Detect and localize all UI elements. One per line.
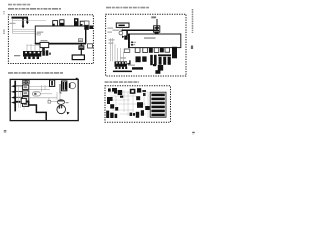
wire W11 gray links above comb xyxy=(27,44,40,46)
notch of T1 xyxy=(75,20,77,22)
wire W16 main thick bus to IC xyxy=(122,26,158,30)
capacitor C10 at +B xyxy=(154,26,160,32)
wire W21 row wires xyxy=(29,85,57,101)
switch SW1 box xyxy=(50,80,55,86)
terminal block X4 xyxy=(22,102,28,106)
IC U14 xyxy=(137,102,143,108)
resistor R12 xyxy=(154,48,159,53)
thick bottom edge of U1 xyxy=(35,43,86,45)
resistor R1 small mark xyxy=(49,53,51,55)
diode D11 xyxy=(160,48,164,53)
arrow A2 xyxy=(22,26,25,29)
motor M1 circle xyxy=(69,82,76,88)
wire W5 thin horizontal xyxy=(13,19,46,21)
motor M2 circle xyxy=(57,105,66,114)
transformer T2 bars xyxy=(150,54,171,65)
transformer T1 on top of U1 xyxy=(74,18,79,26)
regulator box VR1 xyxy=(84,21,89,25)
page number bottom-left xyxy=(4,130,7,133)
IC top component CT1 xyxy=(155,32,159,34)
mark in CN4 xyxy=(79,40,81,41)
wire grid of pcb xyxy=(108,88,148,118)
IC U2 main block xyxy=(129,34,181,48)
terminal pin marks xyxy=(24,86,27,105)
thick right edge of U1 xyxy=(85,26,87,44)
capacitor C30 xyxy=(120,96,123,98)
capacitor C3 beside CN1 xyxy=(46,50,49,55)
lamp LA1 ellipse xyxy=(57,100,64,105)
arrow A5 xyxy=(11,96,16,99)
sensor box S1 xyxy=(116,23,129,27)
pin mark P2 xyxy=(131,44,133,46)
wire W17 drop to optocoupler xyxy=(126,30,128,36)
capacitor C4 stack xyxy=(79,46,84,50)
connector CN10 comb bottom-left xyxy=(106,111,117,118)
trap filter box F1 xyxy=(40,42,49,47)
wire W14 +B stem xyxy=(156,19,158,26)
connector CN2 small box xyxy=(88,44,93,48)
mark of C1 xyxy=(81,24,83,26)
connector CN3 comb block xyxy=(115,61,128,69)
diode D10 xyxy=(149,48,153,53)
resistor R13 xyxy=(165,48,170,52)
capacitor C20 with bars xyxy=(60,81,67,93)
capacitor C12 black square xyxy=(142,56,146,61)
wire W25 link to lamp xyxy=(51,101,58,103)
label text left of CN1 xyxy=(14,55,20,56)
caption line 1 (title of top-left schematic) xyxy=(8,4,31,6)
resistor R21 xyxy=(136,96,140,100)
bus line BL1 xyxy=(14,81,16,112)
IC U13 L-shaped xyxy=(107,97,113,104)
junction dot J1 xyxy=(76,78,78,80)
pad under HS1 xyxy=(155,70,160,74)
arrow A3 xyxy=(11,85,16,88)
thick left edge of U2 xyxy=(128,34,130,48)
wire W1 thick top feed xyxy=(12,17,29,19)
type label inside U2 xyxy=(144,37,156,38)
left margin vertical text xyxy=(3,11,5,34)
contact mark of RL1 xyxy=(53,24,55,26)
label above CN3 xyxy=(120,57,126,58)
wire W19 hook at CN3 xyxy=(127,60,130,63)
connector label box CN4 inside U1 xyxy=(78,39,82,42)
optocoupler OC1 second half xyxy=(129,35,133,40)
caption line 5 (title of bottom-right schematic) xyxy=(105,81,139,83)
IC U12 white center xyxy=(130,89,136,94)
fuse FU1 pair at top xyxy=(23,80,30,83)
label above F1 xyxy=(41,40,48,41)
arrow A8 into optocoupler xyxy=(122,35,124,38)
transistor Q10 xyxy=(118,90,123,95)
resistor row RN1 xyxy=(130,113,135,116)
label under S1 xyxy=(113,30,120,31)
wire W12 from U1 bottom to C4 xyxy=(80,44,82,46)
wire W13 from C4 down xyxy=(80,49,82,55)
terminal block X2 xyxy=(22,91,28,96)
wire W3 vertical drop with arrow xyxy=(22,19,24,27)
arrow A1 xyxy=(26,22,29,25)
pin labels left inside U2 row2 xyxy=(131,44,136,45)
wire W20 stubs to connector xyxy=(15,86,22,102)
element bar inside S1 xyxy=(119,25,125,27)
capacitor C31 xyxy=(115,107,118,111)
connector CN1 comb block xyxy=(23,51,41,59)
switch SW2 on wire xyxy=(21,98,26,103)
capacitor C32 xyxy=(136,112,139,118)
caption line 2 (subtitle of top-left schematic) xyxy=(8,8,61,10)
dashed border of top-left schematic xyxy=(8,15,93,64)
pin labels left inside U2 xyxy=(131,42,136,43)
label text inside U1 xyxy=(37,32,44,33)
wire W2 vertical drop with arrow xyxy=(26,18,28,22)
node label text xyxy=(10,23,16,24)
transistor Q11 xyxy=(110,104,114,108)
power module PS2 blob xyxy=(89,26,93,30)
thermistor TH1 circle xyxy=(119,31,123,35)
wire W9 tail of D1 xyxy=(41,50,44,52)
pin mark P1 xyxy=(131,42,133,44)
wire W4 thin vertical xyxy=(12,19,14,34)
caption line 3 (title of top-right schematic) xyxy=(106,7,149,9)
dashed border of top-right schematic xyxy=(106,14,186,76)
caption line 4 (title of bottom-left schematic) xyxy=(8,72,63,74)
wire W23 thick L-path xyxy=(15,102,46,120)
wire W7 thin horizontal into main unit xyxy=(13,30,68,32)
wire W24 gray risers xyxy=(19,86,25,110)
wire W10 thin verticals to CN1 xyxy=(27,44,40,51)
small marks MK2 xyxy=(143,93,146,96)
diode D1 under F1 xyxy=(42,48,45,51)
components row under U2: resistor R10 xyxy=(135,48,140,53)
wire W22 drop from capacitor xyxy=(59,93,61,100)
solid border of bottom-left schematic xyxy=(10,79,78,120)
wire W18 thin input verticals xyxy=(111,38,124,61)
page number bottom-right xyxy=(192,132,195,135)
wire W6 thin horizontal into main unit xyxy=(13,29,68,31)
battery B1 box xyxy=(72,55,84,60)
capacitor C33 xyxy=(141,110,144,116)
wire W15 sensor leads xyxy=(120,27,122,31)
heatsink HS1 foot xyxy=(158,65,163,71)
label M near motor xyxy=(66,102,69,103)
fuse FU2 capsule xyxy=(33,92,41,96)
arrow A6 xyxy=(11,101,16,104)
capacitor C2 beside CN1 xyxy=(42,50,45,55)
terminal block X3 xyxy=(22,97,28,101)
capacitor C11 black square xyxy=(136,56,141,62)
ground bus GB1 xyxy=(113,71,132,73)
power module PS1 blob xyxy=(84,25,89,30)
input labels column xyxy=(108,28,115,44)
arrow A4 xyxy=(11,90,16,93)
small box G1 under IC left xyxy=(124,49,130,52)
small marks MK1 xyxy=(142,90,146,92)
optocoupler OC1 black pair xyxy=(124,36,127,40)
diode D20 xyxy=(145,106,150,110)
terminal block X1 xyxy=(22,85,28,89)
header J10 striped block xyxy=(150,92,166,117)
arrow A7 xyxy=(67,112,70,115)
component K1 inside U1 xyxy=(37,33,40,35)
transistor Q1 tall dark xyxy=(172,47,177,59)
label right of CN3 xyxy=(128,65,135,66)
+B label xyxy=(151,16,156,18)
ground bar GB2 xyxy=(132,67,143,69)
relay box RL1 on top of U1 xyxy=(53,21,58,26)
main unit U1 outline xyxy=(35,26,85,44)
resistor R20 xyxy=(137,88,141,92)
dashed border of bottom-right schematic xyxy=(105,86,171,122)
wire W8 thin horizontal into main unit xyxy=(13,33,46,35)
capacitor C1 on top of U1 xyxy=(80,21,85,26)
IC U10 xyxy=(108,88,111,91)
element of SW1 xyxy=(51,81,53,85)
relay box RL2 on top of U1 xyxy=(60,20,64,26)
relay K2 small box xyxy=(48,100,51,103)
contact mark of RL2 xyxy=(60,23,64,26)
resistor R11 xyxy=(143,48,148,53)
IC U11 xyxy=(112,88,117,94)
right margin vertical text xyxy=(191,9,194,49)
pad mark xyxy=(153,64,156,66)
